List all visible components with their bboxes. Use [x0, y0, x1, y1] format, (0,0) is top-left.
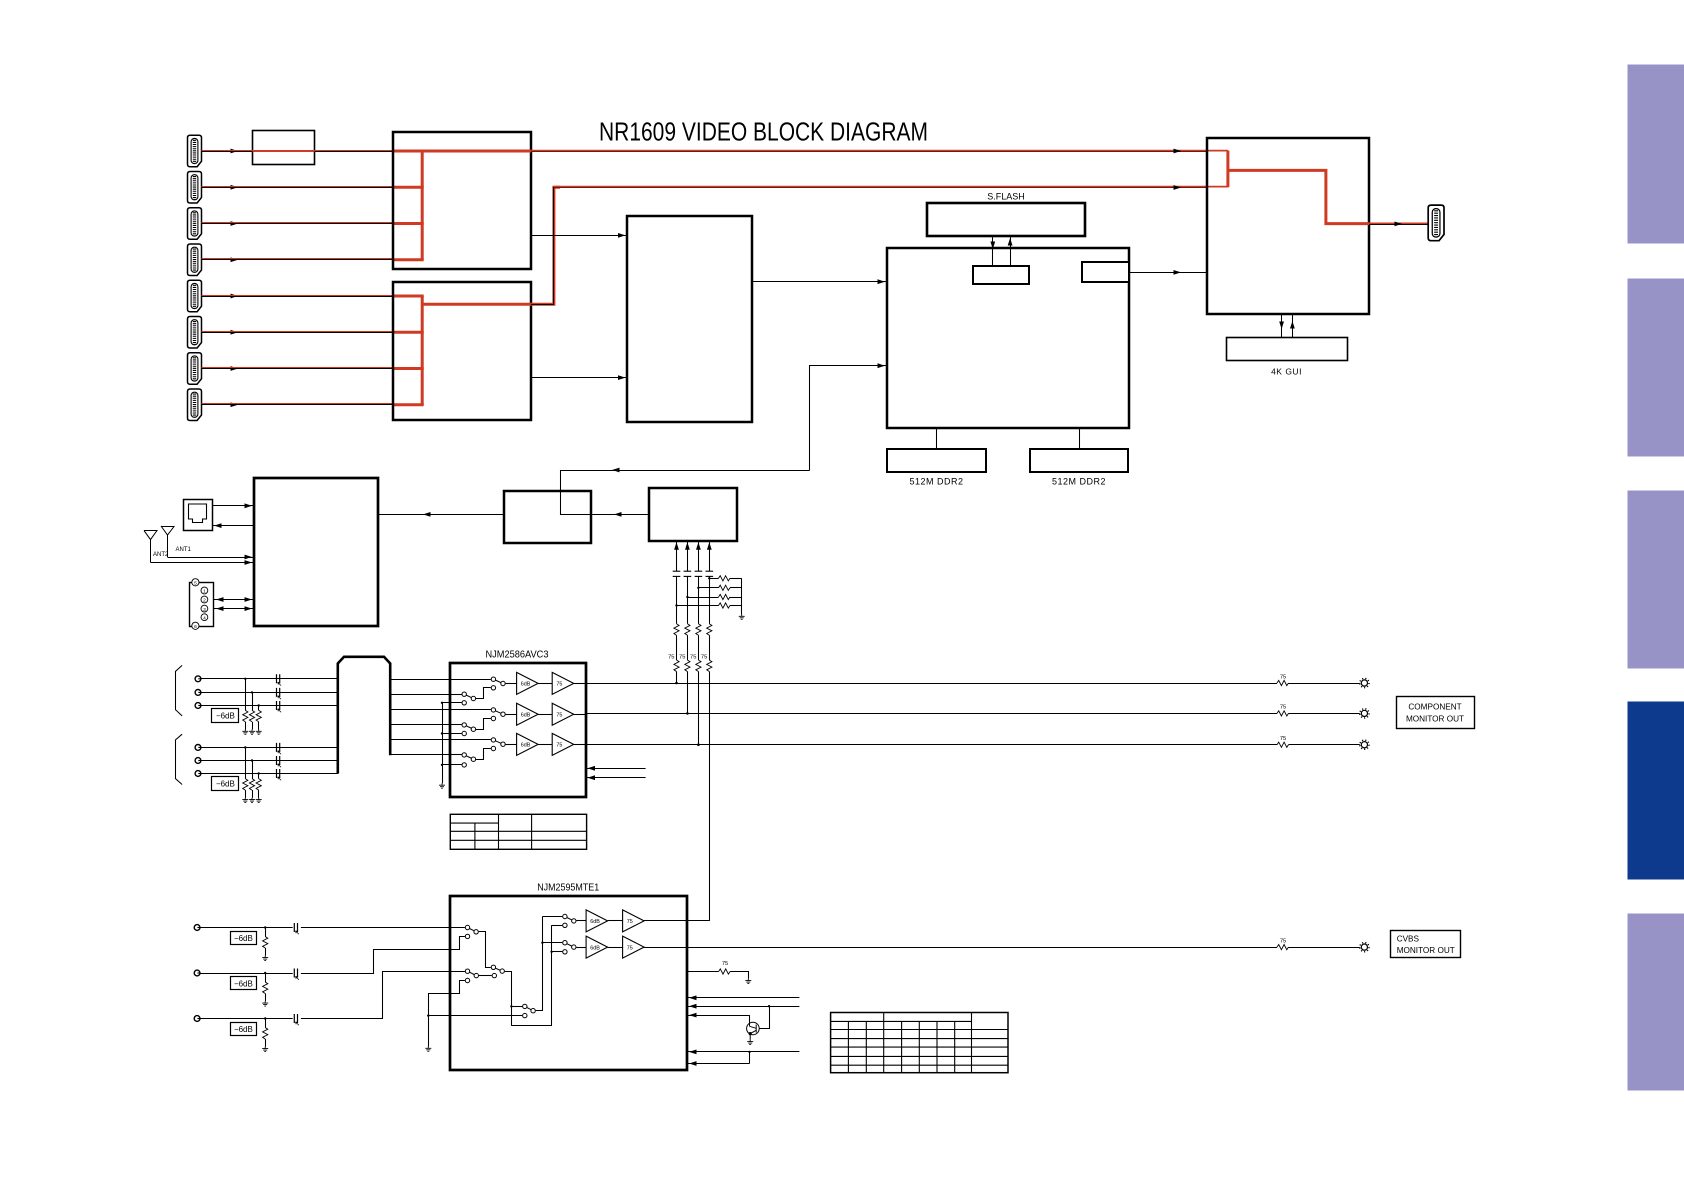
- series resistor a col 3: [696, 624, 701, 636]
- ground A3: [256, 730, 262, 735]
- switch SWa ch2: [450, 709, 491, 711]
- wire input B2: [201, 760, 338, 762]
- 75ohm driver A: [623, 910, 645, 932]
- 75ohm driver ch3: [552, 733, 574, 755]
- wire DIN pin3 to network (bidir): [213, 608, 253, 610]
- wire bundle out 1: [390, 679, 450, 681]
- switch SWb throw2 (gnd) ch2: [462, 731, 466, 735]
- wire column 4 (to video buffer): [709, 541, 711, 571]
- wire input B1: [201, 747, 338, 749]
- switch SW2 common: [500, 969, 504, 973]
- svg-text:NJM2595MTE1: NJM2595MTE1: [537, 882, 599, 894]
- red bus in U1: [421, 151, 424, 260]
- DIN connector (remote): [190, 583, 214, 627]
- switch amp-B throw2: [563, 950, 567, 954]
- svg-text:2: 2: [203, 598, 206, 604]
- svg-text:75: 75: [701, 655, 707, 661]
- svg-text:6dB: 6dB: [521, 682, 531, 688]
- svg-text:75: 75: [1280, 674, 1286, 680]
- wire SW4 common to amp poles: [536, 917, 543, 1011]
- wire bundle out 6: [390, 754, 450, 756]
- 6dB amp ch3: [517, 733, 539, 755]
- control line SW1: [586, 768, 646, 770]
- HDMI IN connector J8: [188, 389, 202, 421]
- RCA jack Y out: [1360, 678, 1369, 687]
- wire HDMI IN 8 to switch: [202, 404, 394, 406]
- switch SWa ch1: [450, 679, 491, 681]
- switch SWb ch1: [450, 694, 462, 696]
- red overlay HDMI4 line: [202, 258, 394, 260]
- -6dB pad box group B: [212, 777, 239, 791]
- svg-text:COMPONENT: COMPONENT: [1408, 703, 1461, 712]
- control line 4: [687, 1051, 800, 1053]
- branch resistor 75 col 2: [687, 597, 718, 599]
- switch SW1 common: [474, 930, 478, 934]
- wire transistor collector: [759, 1006, 769, 1028]
- capacitor B3: [277, 769, 282, 780]
- capacitor column 2: [684, 571, 692, 576]
- switch SWa throw2 ch3: [491, 746, 495, 750]
- HDMI IN connector J4: [188, 244, 202, 276]
- switch SWb ch2: [450, 724, 462, 726]
- antenna ANT2: [144, 531, 157, 563]
- switch SW1 throw2: [465, 934, 469, 938]
- HDMI IN connector J1: [188, 135, 202, 167]
- COMPONENT MONITOR OUT label box: [1397, 697, 1475, 729]
- wire HDMI IN 3 to switch: [202, 223, 394, 225]
- red overlay HDMI1 line: [202, 150, 394, 152]
- wire driver out ch2: [574, 714, 586, 716]
- switch SW2 throw2: [492, 973, 496, 977]
- HDMI IN connector J3: [188, 208, 202, 240]
- wire column 3 lower: [698, 576, 700, 623]
- component input jack A1: [195, 676, 201, 682]
- wire link line4-line5: [749, 1052, 751, 1064]
- svg-text:75: 75: [556, 712, 562, 718]
- HDMI transmitter U5: [1207, 138, 1369, 314]
- wire column 1 lower: [676, 576, 678, 623]
- switch SW3i throw2: [465, 978, 469, 982]
- wire bundle out 2: [390, 694, 450, 696]
- wire SoC to HDMI TX: [1129, 272, 1207, 274]
- HDMI IN connector J2: [188, 172, 202, 204]
- svg-text:−6dB: −6dB: [234, 1025, 253, 1034]
- CVBS input jack 3: [194, 1016, 200, 1022]
- capacitor column 1: [673, 571, 681, 576]
- wire U1 to video decoder: [531, 235, 627, 237]
- 4K GUI box: [1227, 338, 1348, 361]
- video decoder U3: [627, 216, 752, 422]
- branch resistor 75 col 1: [677, 605, 719, 607]
- wire cvbs1 to switch1: [301, 927, 465, 929]
- wire U2 to video decoder: [531, 377, 627, 379]
- svg-text:ANT2: ANT2: [153, 552, 169, 558]
- network module U6: [254, 478, 378, 626]
- pin table NJM2586: [450, 814, 586, 849]
- wire to 6dB amp A: [576, 920, 586, 922]
- wire column 1 (to video buffer): [676, 541, 678, 571]
- capacitor cvbs 3: [294, 1014, 299, 1025]
- wire column 4 lower: [709, 576, 711, 623]
- wire to 6dB amp B: [576, 947, 586, 949]
- RCA jack CVBS out: [1360, 943, 1369, 952]
- wire HDMI IN 7 to switch: [202, 368, 394, 370]
- svg-text:S.FLASH: S.FLASH: [987, 192, 1025, 202]
- red output U1 (inside box): [422, 150, 531, 153]
- wire S.FLASH write: [992, 236, 994, 266]
- svg-text:75: 75: [627, 945, 633, 951]
- ground cvbs 2: [262, 1001, 268, 1006]
- video mode table: [831, 1013, 1008, 1073]
- capacitor A2: [277, 688, 282, 699]
- 512M DDR2 #1: [887, 449, 986, 472]
- wire U-link to amp bank: [511, 925, 551, 1025]
- ground cvbs 3: [262, 1047, 268, 1052]
- wire Pb monitor out: [586, 713, 1277, 715]
- wire DIN pin2 to network (bidir): [213, 599, 253, 601]
- DIN pin 6: [192, 622, 199, 629]
- wire SW3i common to SW2 throw2: [479, 975, 492, 977]
- wire to 6dB amp ch2: [506, 714, 517, 716]
- switch amp-A common: [572, 919, 576, 923]
- video buffer box U8: [649, 488, 737, 541]
- control line 2: [687, 1006, 800, 1008]
- DIN pin 1: [201, 587, 208, 594]
- capacitor B1: [277, 743, 282, 754]
- switch SW3i pole (input3): [465, 969, 469, 973]
- wire bundle out 4: [390, 724, 450, 726]
- HDMI switch U2 (inputs 5-8): [393, 282, 531, 420]
- wire Y monitor out: [586, 683, 1277, 685]
- wire SWb to SWa ch1: [476, 688, 491, 699]
- wire SoC monitor-out to selector: [561, 471, 810, 491]
- wire HDMI TX to HDMI OUT (red+black): [1369, 224, 1428, 226]
- sidebar tab 3: [1628, 491, 1684, 669]
- component input jack B2: [195, 758, 201, 764]
- shunt resistor B3: [258, 774, 260, 779]
- shunt resistor A2: [252, 692, 254, 710]
- branch resistor 75 col 4: [709, 578, 718, 580]
- wire HDMI IN 2 to switch: [202, 187, 394, 189]
- wire cvbs2 reroute: [301, 937, 465, 974]
- wire TMDS line1 red overlay: [531, 150, 1228, 152]
- wire amp B throw2: [552, 951, 563, 953]
- series resistor b col 3 (75): [696, 660, 701, 672]
- wire to 6dB amp ch1: [506, 683, 517, 685]
- capacitor column 4: [706, 571, 714, 576]
- svg-text:−6dB: −6dB: [216, 779, 235, 788]
- wire col3 to Pr out line: [698, 672, 700, 745]
- svg-text:512M DDR2: 512M DDR2: [1052, 477, 1106, 487]
- switch SWb throw2 (gnd) ch3: [462, 763, 466, 767]
- wire ethernet to network: [212, 505, 254, 507]
- switch SWa throw2 ch2: [491, 716, 495, 720]
- control line 5: [687, 1063, 750, 1065]
- -6dB pad box group A: [212, 709, 239, 723]
- input bracket group A: [176, 665, 183, 716]
- switch SWb throw2 (gnd) ch1: [462, 701, 466, 705]
- svg-text:75: 75: [679, 655, 685, 661]
- svg-text:CVBS: CVBS: [1397, 935, 1420, 944]
- SoC flash controller block: [973, 266, 1029, 284]
- component input jack A3: [195, 703, 201, 709]
- wire TMDS line2 red overlay: [554, 186, 1228, 188]
- svg-text:6: 6: [194, 624, 197, 630]
- component input jack B3: [195, 771, 201, 777]
- termination resistor 75: [687, 971, 719, 973]
- SoC HDMI out block: [1082, 262, 1129, 282]
- svg-text:5: 5: [194, 581, 197, 587]
- sidebar tab 5: [1628, 914, 1684, 1091]
- wire col2 to Pb out line: [687, 672, 689, 714]
- wire amp B pole: [542, 942, 562, 944]
- wire to SW4 pole: [511, 1006, 522, 1008]
- wire to 6dB amp ch3: [506, 744, 517, 746]
- switch amp-B pole: [563, 941, 567, 945]
- arrow into HDMI TX line2: [1174, 185, 1182, 190]
- wire to transistor base: [749, 1015, 751, 1022]
- control line 3: [687, 1015, 750, 1017]
- shunt resistor cvbs 2: [265, 973, 267, 982]
- wire cvbs3 reroute: [301, 972, 465, 1019]
- switch SW3i common: [474, 973, 478, 977]
- capacitor A1: [277, 674, 282, 685]
- red path inside HDMI TX: [1226, 151, 1229, 188]
- 6dB amp A: [586, 910, 608, 932]
- ethernet jack: [184, 500, 213, 531]
- wire U3 to SoC: [752, 281, 887, 283]
- wire amp A throw2: [552, 925, 563, 927]
- component input jack A2: [195, 690, 201, 696]
- control line SW2: [586, 777, 646, 779]
- wire input A1: [201, 678, 338, 680]
- svg-text:75: 75: [556, 682, 562, 688]
- wire driver out ch3: [574, 744, 586, 746]
- red overlay HDMI6 line: [202, 331, 394, 333]
- wire S.FLASH read: [1010, 236, 1012, 266]
- switch SWb ch3: [450, 754, 462, 756]
- wire HDMI IN 4 to switch: [202, 259, 394, 261]
- wire ANT2 to network: [151, 562, 254, 564]
- svg-text:512M DDR2: 512M DDR2: [909, 477, 963, 487]
- -6dB pad box cvbs 3: [231, 1023, 257, 1036]
- wire col1 to Y out line: [676, 672, 678, 684]
- wire input A3: [201, 705, 338, 707]
- wire SW3i throw2 to ground bus: [428, 981, 465, 994]
- HDMI IN connector J5: [188, 280, 202, 312]
- wire CVBS record out (up): [644, 920, 709, 922]
- DIN pin 4: [201, 614, 208, 621]
- svg-text:−6dB: −6dB: [234, 934, 253, 943]
- wire CVBS monitor out line: [644, 947, 1277, 949]
- svg-text:1: 1: [203, 589, 206, 595]
- wire 4K GUI to HDMI TX: [1292, 314, 1294, 338]
- component input jack B1: [195, 745, 201, 751]
- HDMI IN connector J6: [188, 317, 202, 349]
- 6dB amp ch1: [517, 672, 539, 694]
- svg-text:ANT1: ANT1: [176, 547, 192, 553]
- series resistor 75 Pr: [1277, 742, 1289, 747]
- svg-text:3: 3: [203, 607, 206, 613]
- capacitor cvbs 2: [294, 969, 299, 980]
- wire SW2 out down: [505, 972, 512, 1026]
- 75ohm driver ch2: [552, 703, 574, 725]
- HDMI IN connector J7: [188, 353, 202, 385]
- ground B1: [242, 798, 248, 803]
- wire SWb to SWa ch2: [476, 719, 491, 730]
- wire input A2: [201, 692, 338, 694]
- svg-text:NR1609 VIDEO BLOCK DIAGRAM: NR1609 VIDEO BLOCK DIAGRAM: [599, 119, 928, 147]
- wire SoC to DDR2 #2: [1079, 429, 1081, 449]
- NJM2595MTE1 box U10: [450, 896, 687, 1070]
- sidebar tab 4 (active): [1628, 702, 1684, 880]
- wire CVBS input 2: [200, 973, 292, 975]
- wire 6dB to 75 ch3: [538, 744, 552, 746]
- red bus in U2: [421, 296, 424, 405]
- svg-text:6dB: 6dB: [590, 945, 600, 951]
- switch SWa throw2 ch1: [491, 686, 495, 690]
- ground B3: [256, 798, 262, 803]
- bright red segment in filter box: [253, 150, 315, 152]
- capacitor B2: [277, 756, 282, 767]
- NJM2586AVC3 box U9: [450, 663, 586, 797]
- wire TMDS line2 black: [531, 188, 1207, 305]
- sidebar tab 2: [1628, 279, 1684, 457]
- wire 6dB to 75 ch1: [538, 683, 552, 685]
- series resistor a col 4: [707, 624, 712, 636]
- wire HDMI IN 1 to switch: [202, 151, 394, 153]
- ground cvbs 1: [262, 956, 268, 961]
- input bracket group B: [176, 734, 183, 784]
- switch SW2 throw1: [491, 965, 495, 969]
- svg-text:4K GUI: 4K GUI: [1271, 367, 1302, 377]
- switch SW4 throw2: [523, 1013, 527, 1017]
- cable bundle: [338, 657, 390, 774]
- switch amp-B common: [572, 945, 576, 949]
- -6dB pad box cvbs 1: [231, 932, 257, 945]
- svg-text:4: 4: [203, 615, 206, 621]
- shunt resistor B1: [245, 747, 247, 778]
- red overlay HDMI8 line: [202, 403, 394, 405]
- shunt resistor cvbs 3: [265, 1019, 267, 1028]
- svg-text:75: 75: [1280, 938, 1286, 944]
- series resistor a col 1: [674, 624, 679, 636]
- wire HDMI IN 5 to switch: [202, 296, 394, 298]
- filter box on HDMI1 line: [253, 131, 315, 165]
- svg-text:75: 75: [668, 655, 674, 661]
- wire driver out ch1: [574, 683, 586, 685]
- HDMI OUT connector: [1428, 205, 1444, 241]
- shunt resistor A3: [258, 706, 260, 711]
- wire inside U7: [561, 491, 591, 515]
- wire col4 to CVBS amp out: [709, 672, 711, 921]
- svg-text:MONITOR OUT: MONITOR OUT: [1406, 715, 1464, 724]
- svg-text:75: 75: [1280, 736, 1286, 742]
- series resistor a col 2: [685, 624, 690, 636]
- red overlay HDMI3 line: [202, 222, 394, 224]
- series resistor b col 2 (75): [685, 660, 690, 672]
- svg-text:6dB: 6dB: [521, 712, 531, 718]
- series resistor b col 1 (75): [674, 660, 679, 672]
- capacitor column 3: [695, 571, 703, 576]
- wire CVBS input 3: [200, 1018, 292, 1020]
- ground A2: [249, 730, 255, 735]
- series resistor b col 4 (75): [707, 660, 712, 672]
- DIN pin 5: [192, 579, 199, 586]
- 75ohm driver ch1: [552, 672, 574, 694]
- 6dB amp ch2: [517, 703, 539, 725]
- capacitor cvbs 1: [294, 923, 299, 934]
- switch SW4 common: [531, 1009, 535, 1013]
- red overlay HDMI2 line: [202, 186, 394, 188]
- switch ground bus: [442, 703, 444, 784]
- wire SW1 common to SW2: [479, 932, 491, 968]
- wire input B3: [201, 773, 338, 775]
- switch amp-A pole: [563, 914, 567, 918]
- S.FLASH memory: [927, 203, 1085, 236]
- shunt resistor cvbs 1: [265, 928, 267, 937]
- 75ohm driver B: [623, 936, 645, 958]
- shunt resistor A1: [245, 679, 247, 711]
- svg-text:75: 75: [556, 743, 562, 749]
- svg-text:75: 75: [722, 961, 728, 967]
- SoC main processor U4: [887, 248, 1129, 428]
- CVBS input jack 1: [194, 925, 200, 931]
- wire SWb to SWa ch3: [476, 749, 491, 760]
- 6dB amp B: [586, 936, 608, 958]
- shunt resistor B2: [252, 761, 254, 779]
- svg-text:6dB: 6dB: [590, 919, 600, 925]
- termination bus to ground: [741, 578, 743, 614]
- switch SW1 pole: [465, 925, 469, 929]
- svg-text:6dB: 6dB: [521, 743, 531, 749]
- wire 6dB to 75 ch2: [538, 714, 552, 716]
- series resistor 75 Pb: [1277, 711, 1289, 716]
- ground A1: [242, 730, 248, 735]
- DIN pin 3: [201, 605, 208, 612]
- wire Pr monitor out: [586, 744, 1277, 746]
- wire HDMI TX to 4K GUI: [1281, 314, 1283, 338]
- wire bundle out 3: [390, 709, 450, 711]
- sidebar tab 1: [1628, 65, 1684, 244]
- series resistor 75 CVBS: [1277, 945, 1289, 950]
- switch amp-A throw2: [563, 923, 567, 927]
- RCA jack Pb out: [1360, 709, 1369, 718]
- svg-text:−6dB: −6dB: [216, 711, 235, 720]
- series resistor 75 Y: [1277, 680, 1289, 685]
- -6dB pad box cvbs 2: [231, 977, 257, 990]
- red overlay HDMI5 line: [202, 295, 394, 297]
- wire amp A pole: [542, 916, 562, 918]
- CVBS input jack 2: [194, 970, 200, 976]
- red overlay HDMI7 line: [202, 367, 394, 369]
- wire HDMI IN 6 to switch: [202, 332, 394, 334]
- svg-text:−6dB: −6dB: [234, 980, 253, 989]
- transistor Q1: [747, 1022, 760, 1040]
- wire HDMI5V / TMDS line1 black: [531, 151, 1207, 153]
- external ground bus: [428, 993, 430, 1047]
- ground B2: [249, 798, 255, 803]
- wire SW4 throw2 to ground bus: [428, 1015, 522, 1017]
- HDMI switch U1 (inputs 1-4): [393, 132, 531, 269]
- 512M DDR2 #2: [1030, 449, 1128, 472]
- wire CVBS input 1: [200, 927, 292, 929]
- capacitor A3: [277, 701, 282, 712]
- svg-text:MONITOR OUT: MONITOR OUT: [1397, 946, 1455, 955]
- wire column 3 (to video buffer): [698, 541, 700, 571]
- control line Y/C 1: [687, 997, 800, 999]
- wire network to ethernet: [212, 525, 254, 527]
